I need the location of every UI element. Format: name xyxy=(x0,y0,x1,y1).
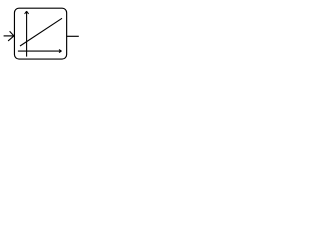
function block U1 (rounded box) xyxy=(14,8,66,59)
y-axis arrowhead xyxy=(25,11,29,14)
transfer characteristic line xyxy=(20,18,62,46)
input arrowhead xyxy=(8,31,14,41)
x-axis arrowhead xyxy=(59,50,62,53)
graph x-axis xyxy=(18,50,61,52)
graph y-axis xyxy=(26,12,28,57)
wire: input lead xyxy=(4,35,14,37)
wire: output lead xyxy=(67,35,79,37)
